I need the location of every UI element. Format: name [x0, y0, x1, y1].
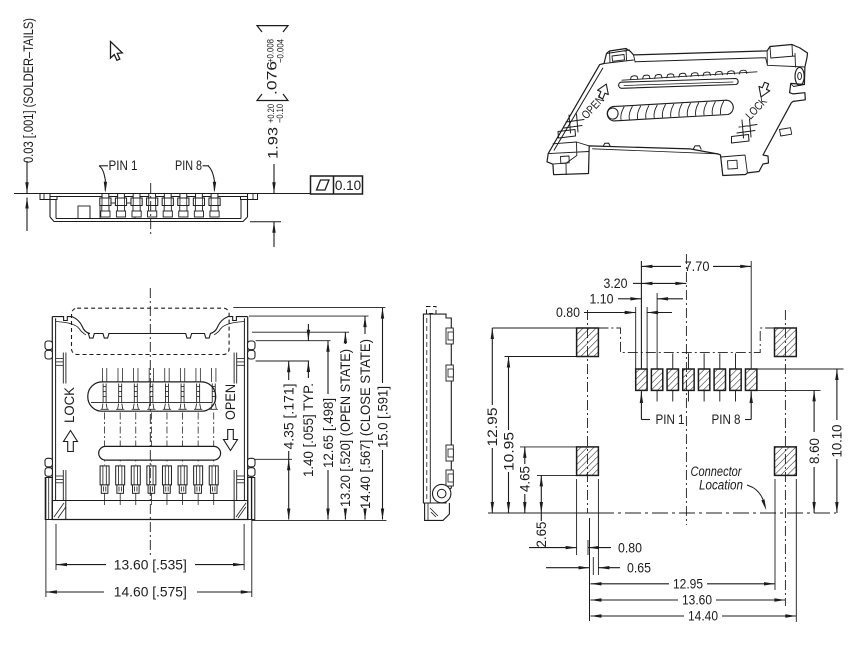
svg-text:−0.004: −0.004 — [276, 39, 287, 63]
svg-text:0.10: 0.10 — [335, 178, 361, 193]
svg-text:7.70: 7.70 — [685, 259, 710, 274]
svg-text:0.03 [.001] (SOLDER–TAILS): 0.03 [.001] (SOLDER–TAILS) — [21, 18, 36, 163]
svg-text:10.95: 10.95 — [501, 432, 516, 471]
svg-text:14.40 [.567] (CLOSE STATE): 14.40 [.567] (CLOSE STATE) — [358, 339, 373, 509]
svg-text:13.20 [.520] (OPEN STATE): 13.20 [.520] (OPEN STATE) — [338, 349, 353, 507]
svg-text:12.95: 12.95 — [673, 577, 703, 592]
svg-text:0.65: 0.65 — [627, 560, 651, 575]
svg-text:8.60: 8.60 — [807, 438, 822, 464]
svg-text:12.65 [.498]: 12.65 [.498] — [321, 398, 336, 468]
svg-text:13.60 [.535]: 13.60 [.535] — [114, 557, 187, 572]
svg-text:OPEN: OPEN — [223, 384, 238, 420]
svg-text:0.80: 0.80 — [556, 305, 580, 320]
svg-text:14.40: 14.40 — [688, 609, 718, 624]
svg-text:1.10: 1.10 — [590, 292, 614, 307]
svg-text:12.95: 12.95 — [485, 408, 500, 447]
svg-text:4.65: 4.65 — [518, 466, 533, 492]
svg-text:2.65: 2.65 — [534, 522, 549, 548]
svg-text:15.0 [.591]: 15.0 [.591] — [375, 386, 390, 448]
svg-text:14.60 [.575]: 14.60 [.575] — [114, 585, 187, 600]
svg-text:PIN 1: PIN 1 — [656, 412, 685, 427]
svg-text:4.35 [.171]: 4.35 [.171] — [282, 384, 297, 450]
svg-text:PIN 8: PIN 8 — [712, 412, 741, 427]
svg-text:3.20: 3.20 — [604, 276, 628, 291]
svg-text:−0.10: −0.10 — [275, 104, 286, 123]
svg-text:13.60: 13.60 — [682, 593, 712, 608]
svg-text:0.80: 0.80 — [618, 540, 642, 555]
svg-text:.076: .076 — [265, 61, 280, 95]
svg-text:1.40 [.055] TYP.: 1.40 [.055] TYP. — [301, 383, 316, 477]
svg-text:10.10: 10.10 — [830, 425, 845, 458]
svg-text:PIN 1: PIN 1 — [109, 158, 138, 173]
svg-text:1.93: 1.93 — [266, 127, 281, 159]
svg-text:LOCK: LOCK — [62, 387, 77, 423]
svg-text:PIN 8: PIN 8 — [175, 158, 202, 173]
svg-text:Location: Location — [699, 478, 743, 493]
